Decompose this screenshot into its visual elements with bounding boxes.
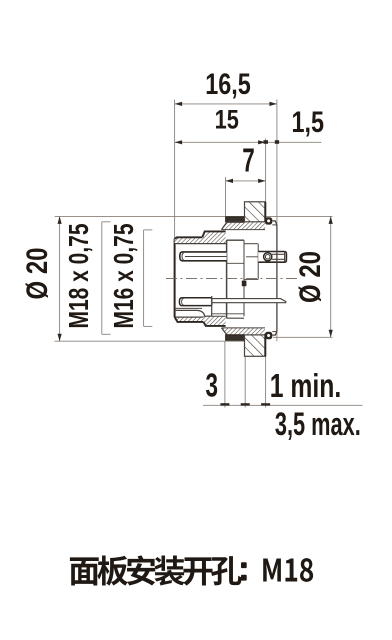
svg-text:Ø 20: Ø 20 xyxy=(293,251,327,303)
svg-text:16,5: 16,5 xyxy=(205,67,251,100)
rear stub top xyxy=(272,221,277,225)
lower solder tab xyxy=(212,299,286,303)
washer top (dark) xyxy=(226,217,245,222)
svg-text:M16 x 0,75: M16 x 0,75 xyxy=(109,223,140,328)
arrowheads xyxy=(175,102,183,106)
panel upper part (hatched) xyxy=(245,202,266,222)
rear stub bottom xyxy=(272,332,277,336)
insulator rear block xyxy=(243,240,245,316)
key slot line xyxy=(175,307,202,309)
svg-text:3: 3 xyxy=(205,367,217,405)
wire xyxy=(55,100,363,408)
svg-text:15: 15 xyxy=(215,106,239,136)
retaining ring bottom xyxy=(265,332,272,339)
connector front face xyxy=(174,239,176,317)
centerline xyxy=(166,278,297,280)
insulator front face xyxy=(226,240,228,318)
panel lower part (hatched) xyxy=(245,335,266,356)
lower pin (contact) xyxy=(179,298,212,306)
svg-text:1,5: 1,5 xyxy=(292,105,325,138)
svg-text:Ø 20: Ø 20 xyxy=(20,247,54,299)
front thread band top (hatched) xyxy=(175,237,203,243)
rear end face xyxy=(276,225,278,332)
M18 thread band bottom (hatched) xyxy=(222,328,266,335)
svg-text:3,5 max.: 3,5 max. xyxy=(275,406,361,442)
upper solder lug with eyelet xyxy=(258,252,286,263)
caption: panel mounting hole M18 xyxy=(70,555,313,585)
M16 band bottom (hatched) xyxy=(203,316,225,326)
upper pin center line xyxy=(185,256,227,258)
cavity top inner wall xyxy=(175,243,227,245)
M18 thread band top (hatched) xyxy=(222,222,266,229)
washer bottom (dark) xyxy=(226,335,245,340)
cavity bottom inner wall xyxy=(175,310,212,316)
svg-text:M18 x 0,75: M18 x 0,75 xyxy=(64,223,95,328)
key rib band bottom (hatched) xyxy=(175,317,204,322)
retaining ring top xyxy=(265,217,272,224)
upper pin (contact) xyxy=(180,252,227,261)
contact center line in insulator xyxy=(246,256,264,258)
M16 thread band top (hatched) xyxy=(202,231,225,243)
svg-text:1 min.: 1 min. xyxy=(270,369,342,405)
svg-text:7: 7 xyxy=(242,142,254,180)
key section block xyxy=(242,281,247,287)
